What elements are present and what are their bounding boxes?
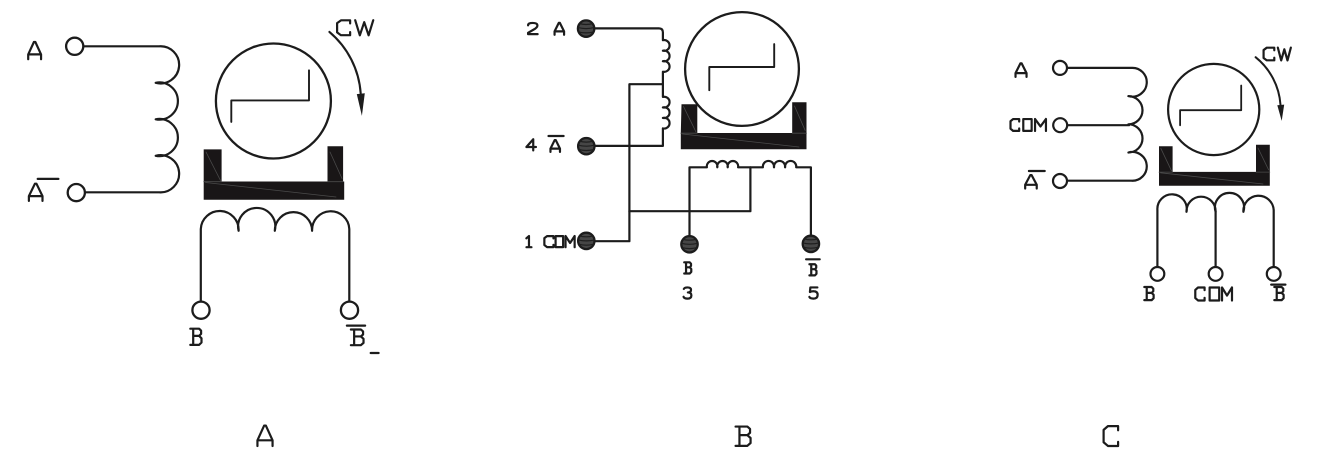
big label C xyxy=(1104,426,1118,446)
terminal 2A (filled) xyxy=(578,20,594,36)
wire A to coil, coil A upper+lower, wire to Abar xyxy=(595,28,670,145)
coil B horizontal with curls xyxy=(690,161,811,236)
wire A + coil A (vertical winding) + wire Abar xyxy=(84,46,179,192)
terminal Bbar (open circle) xyxy=(341,302,358,319)
label A (phase A) xyxy=(28,42,41,59)
motor M3 (rotor circle) xyxy=(1168,64,1259,155)
label B / 3 xyxy=(684,262,692,298)
motor mount bracket (black) xyxy=(1159,145,1270,186)
terminal 1COM (filled) xyxy=(578,233,594,249)
label Abar xyxy=(29,179,59,201)
step waveform inside motor xyxy=(709,44,774,90)
label 4 Abar xyxy=(526,136,563,152)
label B bottom xyxy=(1144,287,1153,300)
step waveform inside motor xyxy=(231,70,309,122)
motor mount bracket (black) xyxy=(681,102,807,149)
terminal A (open) xyxy=(1053,61,1067,75)
label Bbar bottom xyxy=(1271,285,1285,301)
step waveform inside motor xyxy=(1180,86,1241,126)
coil B (horizontal winding below mount) xyxy=(201,208,349,301)
label A xyxy=(1016,63,1027,77)
CW arrowhead xyxy=(1277,105,1284,121)
mount seam lines xyxy=(1159,148,1270,184)
wire COM to coil center tap xyxy=(1068,124,1129,126)
label B xyxy=(190,329,201,345)
label 2 A xyxy=(528,23,564,35)
wire A + coil A (4 bumps) + wire Abar xyxy=(1068,68,1147,181)
terminal B (open circle) xyxy=(192,302,209,319)
terminal COM (open) xyxy=(1053,118,1067,132)
motor M1 (rotor circle) xyxy=(216,44,331,159)
terminal Abar (open circle) xyxy=(68,184,85,201)
big label B xyxy=(736,427,751,446)
coil B center tap to COM xyxy=(629,167,750,211)
big label A xyxy=(257,426,272,446)
underscore after Bbar xyxy=(371,352,379,354)
terminal 4Abar (filled) xyxy=(578,138,594,154)
terminal B3 (filled) xyxy=(681,236,697,252)
terminal Bbar (open) xyxy=(1267,267,1281,281)
terminal COM bottom (open) xyxy=(1209,267,1223,281)
motor mount bracket (black) xyxy=(204,146,345,200)
terminal B5 (filled) xyxy=(803,236,819,252)
label CW xyxy=(1264,48,1291,61)
label CW xyxy=(337,20,373,35)
CW rotation arc xyxy=(329,32,360,94)
center lead xyxy=(1214,212,1216,266)
label COM bottom xyxy=(1195,287,1232,300)
label Bbar / 5 xyxy=(806,259,820,298)
coil B (horizontal, 4 bumps) with three leads xyxy=(1157,193,1273,266)
terminal Abar (open) xyxy=(1053,174,1067,188)
center tap wire: coil A mid to COM vertical xyxy=(595,84,663,241)
CW arrowhead xyxy=(357,93,365,116)
mount seam lines xyxy=(204,152,343,197)
terminal A (open circle) xyxy=(66,38,83,55)
CW rotation arc xyxy=(1256,57,1281,105)
motor M2 (rotor circle) xyxy=(685,12,799,126)
mount seam lines xyxy=(681,106,807,147)
label 1 COM xyxy=(526,236,574,247)
label Bbar xyxy=(347,326,365,346)
label COM xyxy=(1011,119,1046,131)
terminal B (open) xyxy=(1151,267,1165,281)
label Abar xyxy=(1025,171,1045,189)
